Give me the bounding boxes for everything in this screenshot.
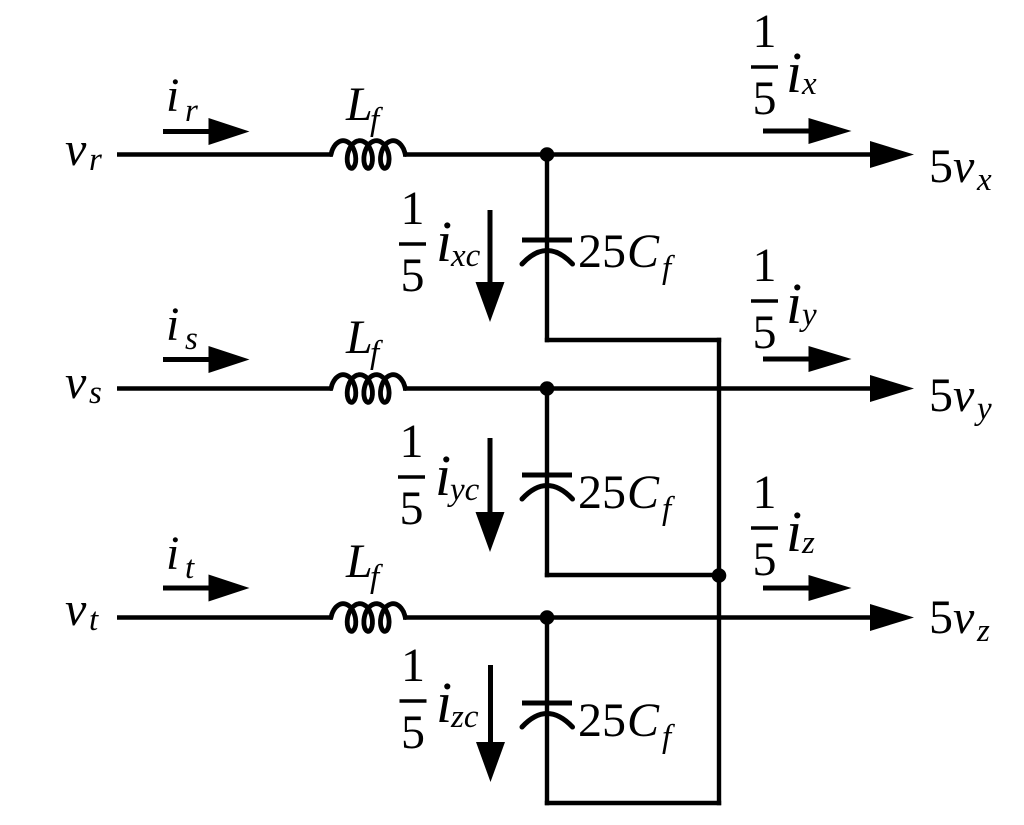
- current arrow ix small: [763, 129, 812, 134]
- capacitor C2 25Cf top plate: [522, 473, 572, 478]
- svg-text:L: L: [345, 535, 373, 588]
- svg-text:zc: zc: [450, 699, 479, 735]
- svg-text:v: v: [65, 356, 87, 409]
- svg-text:z: z: [976, 613, 990, 649]
- svg-text:5: 5: [401, 249, 425, 302]
- svg-text:i: i: [436, 209, 452, 274]
- output arrowhead 5vx: [870, 141, 914, 168]
- svg-text:t: t: [89, 602, 99, 638]
- node phase s junction dot: [540, 381, 555, 396]
- current arrow izc down: [488, 665, 493, 745]
- svg-text:C: C: [627, 694, 660, 747]
- capacitor C3 25Cf top plate: [522, 701, 572, 706]
- wire phase t right segment: [403, 615, 880, 620]
- svg-text:5: 5: [753, 306, 777, 359]
- node neutral bus junction dot: [712, 568, 727, 583]
- capacitor C1 25Cf top plate: [522, 238, 572, 243]
- svg-text:1: 1: [401, 639, 425, 692]
- svg-text:v: v: [953, 369, 975, 422]
- svg-text:1: 1: [401, 182, 425, 235]
- current arrow it: [163, 586, 212, 591]
- svg-text:v: v: [65, 123, 87, 176]
- label fraction 1/5 (iy): [751, 239, 778, 359]
- svg-text:5: 5: [400, 482, 424, 535]
- current arrow is: [163, 357, 212, 362]
- svg-text:r: r: [89, 142, 102, 178]
- label fraction 1/5 (iyc): [398, 415, 425, 535]
- svg-text:25: 25: [578, 466, 626, 519]
- inductor L2 Lf: [331, 375, 405, 403]
- output arrowhead 5vy: [870, 375, 914, 402]
- svg-text:xc: xc: [450, 238, 481, 274]
- svg-text:i: i: [436, 670, 452, 735]
- wire phase t left segment: [117, 615, 333, 620]
- current arrow iz small: [763, 586, 812, 591]
- svg-text:r: r: [185, 93, 198, 129]
- svg-text:1: 1: [753, 466, 777, 519]
- wire capacitor r bottom horizontal: [545, 338, 721, 343]
- svg-text:L: L: [345, 78, 373, 131]
- wire capacitor s bottom horizontal: [545, 573, 721, 578]
- svg-text:i: i: [166, 298, 179, 351]
- inductor L1 Lf: [331, 141, 405, 169]
- svg-text:i: i: [435, 443, 451, 508]
- svg-text:yc: yc: [447, 472, 480, 508]
- wire capacitor t vertical: [545, 618, 549, 806]
- svg-text:1: 1: [753, 239, 777, 292]
- svg-text:5: 5: [929, 140, 953, 193]
- wire phase s left segment: [117, 386, 333, 391]
- svg-text:C: C: [627, 225, 660, 278]
- wire capacitor t bottom horizontal: [545, 801, 721, 806]
- svg-text:v: v: [953, 140, 975, 193]
- svg-text:i: i: [786, 499, 802, 564]
- svg-text:i: i: [166, 69, 179, 122]
- svg-text:C: C: [627, 466, 660, 519]
- label fraction 1/5 (ixc): [399, 182, 426, 302]
- svg-text:v: v: [65, 583, 87, 636]
- svg-text:t: t: [185, 550, 195, 586]
- wire capacitor s vertical: [545, 389, 549, 578]
- svg-text:5: 5: [753, 533, 777, 586]
- node phase r junction dot: [540, 147, 555, 162]
- current arrow ixc down: [488, 210, 493, 285]
- svg-text:s: s: [89, 375, 102, 411]
- svg-text:5: 5: [929, 369, 953, 422]
- wire neutral bus vertical: [717, 338, 721, 805]
- svg-text:x: x: [801, 66, 817, 102]
- svg-text:1: 1: [753, 5, 777, 58]
- svg-text:s: s: [185, 321, 198, 357]
- current arrow iy small: [763, 357, 812, 362]
- label fraction 1/5 (ix): [751, 5, 778, 125]
- capacitor C3 25Cf curved plate: [522, 714, 573, 728]
- wire phase s right segment: [403, 386, 880, 391]
- svg-text:25: 25: [578, 225, 626, 278]
- svg-text:5: 5: [401, 706, 425, 759]
- capacitor C1 25Cf curved plate: [522, 251, 573, 265]
- svg-text:i: i: [166, 527, 179, 580]
- output arrowhead 5vz: [870, 604, 914, 631]
- svg-text:y: y: [799, 297, 817, 333]
- wire phase r right segment: [403, 152, 880, 157]
- svg-text:5: 5: [929, 591, 953, 644]
- svg-text:1: 1: [400, 415, 424, 468]
- svg-text:25: 25: [578, 694, 626, 747]
- wire capacitor r vertical: [545, 155, 549, 343]
- capacitor C2 25Cf curved plate: [522, 486, 573, 500]
- label fraction 1/5 (iz): [751, 466, 778, 586]
- svg-text:x: x: [976, 162, 992, 198]
- label fraction 1/5 (izc): [400, 639, 427, 759]
- svg-text:y: y: [974, 391, 992, 427]
- svg-text:i: i: [786, 40, 802, 105]
- current arrow ir: [163, 129, 212, 134]
- inductor L3 Lf: [331, 604, 405, 632]
- svg-text:L: L: [345, 311, 373, 364]
- svg-text:i: i: [786, 271, 802, 336]
- svg-text:v: v: [953, 591, 975, 644]
- current arrow iyc down: [488, 438, 493, 515]
- svg-text:5: 5: [753, 72, 777, 125]
- svg-text:z: z: [801, 525, 815, 561]
- wire phase r left segment: [117, 152, 333, 157]
- node phase t junction dot: [540, 610, 555, 625]
